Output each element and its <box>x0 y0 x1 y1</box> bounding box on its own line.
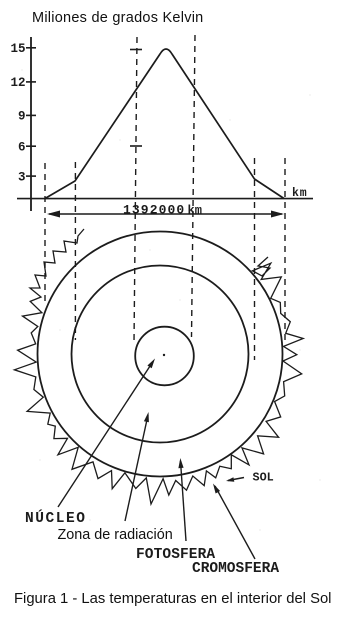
svg-text:15: 15 <box>10 42 25 56</box>
svg-text:3: 3 <box>18 171 26 185</box>
svg-text:1392000: 1392000 <box>123 203 185 218</box>
inner circle (nucleus) <box>135 327 194 386</box>
y-axis <box>30 37 32 211</box>
temperature curve <box>45 49 284 199</box>
svg-text:NÚCLEO: NÚCLEO <box>25 509 87 527</box>
dashed vertical guide lines <box>45 35 285 360</box>
tick marks on dashed line x=136.5 <box>130 49 142 51</box>
svg-text:12: 12 <box>10 76 25 90</box>
diameter arrow 1392000km <box>49 213 282 215</box>
svg-text:Miliones de grados Kelvin: Miliones de grados Kelvin <box>32 10 203 26</box>
svg-text:CROMOSFERA: CROMOSFERA <box>192 561 279 577</box>
x-axis baseline <box>17 198 313 200</box>
label arrows <box>58 363 255 559</box>
axis ticks <box>26 47 36 49</box>
svg-text:6: 6 <box>18 141 26 155</box>
scan background speckle <box>21 69 320 530</box>
svg-text:km: km <box>292 187 308 200</box>
svg-text:SOL: SOL <box>253 471 274 485</box>
svg-text:Figura 1 - Las temperaturas en: Figura 1 - Las temperaturas en el interi… <box>14 591 331 607</box>
sun outer circle (photosphere) <box>38 232 283 477</box>
center dot <box>163 354 165 356</box>
corona zigzag (chromosphere) <box>14 229 303 504</box>
middle circle (radiation zone boundary) <box>72 266 249 443</box>
svg-text:km: km <box>188 204 202 218</box>
svg-text:9: 9 <box>18 110 26 124</box>
svg-text:Zona de radiación: Zona de radiación <box>58 527 173 543</box>
